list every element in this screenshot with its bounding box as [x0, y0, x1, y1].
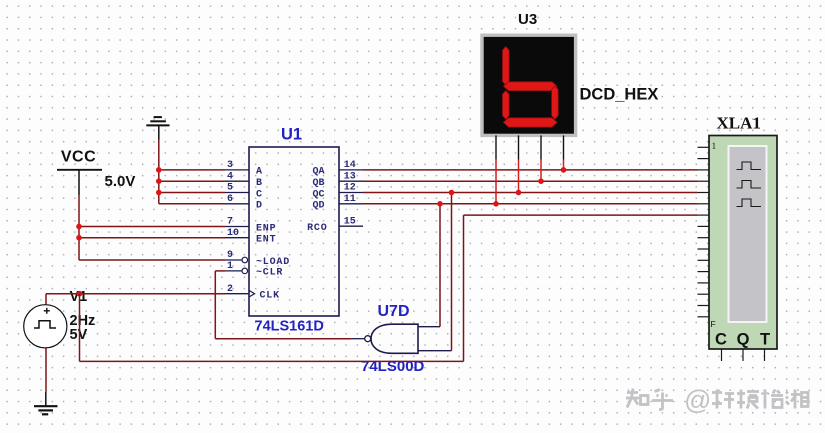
pin 3 (A) of U1	[225, 160, 263, 178]
svg-text:F: F	[711, 319, 716, 329]
NAND gate U7D 74LS00D body	[371, 324, 418, 353]
wire V1 to ground	[45, 348, 47, 407]
junction VCC/ENT	[76, 235, 82, 241]
label 2Hz	[70, 313, 96, 329]
wire GND to C (pin 5)	[159, 192, 225, 194]
junction GND/B	[156, 178, 162, 184]
svg-text:U3: U3	[518, 11, 537, 28]
XLA1 waveform glyph 1	[737, 162, 762, 170]
XLA1 bottom pin stub C	[721, 349, 723, 361]
wire GND rail vertical	[158, 140, 160, 204]
pin 4 (B) of U1	[225, 171, 263, 189]
svg-text:1: 1	[227, 261, 233, 272]
svg-text:9: 9	[227, 250, 233, 261]
ground GND2 (below V1)	[34, 406, 58, 414]
svg-text:@: @	[684, 385, 711, 415]
pin 15 (RCO) of U1	[307, 216, 363, 234]
XLA1 waveform glyph 2	[737, 181, 762, 189]
XLA1 label Q	[737, 331, 750, 349]
wire U3 pin 4 down to bus	[563, 135, 565, 170]
pin 14 (QA) of U1	[312, 160, 363, 178]
svg-text:ENP: ENP	[256, 223, 276, 234]
pin 10 (ENT) of U1	[225, 228, 276, 246]
wire GND to D (pin 6)	[159, 203, 225, 205]
svg-text:B: B	[256, 178, 263, 189]
wire U3 pin 2 down to bus	[518, 135, 520, 192]
voltage source V1 (2Hz 5V clock)	[24, 305, 67, 348]
pin 1 (~CLR) of U1, active-low bubble	[225, 261, 283, 279]
svg-text:6: 6	[227, 194, 233, 205]
junction clock branch	[77, 291, 83, 297]
power VCC	[57, 149, 102, 196]
XLA1 label C	[715, 331, 727, 349]
VCC value 5.0V	[105, 173, 136, 190]
svg-text:4: 4	[227, 171, 233, 182]
svg-text:74LS161D: 74LS161D	[255, 319, 324, 335]
label U7D	[378, 303, 410, 320]
svg-text:XLA1: XLA1	[717, 114, 761, 133]
pin 7 (ENP) of U1	[225, 217, 276, 235]
XLA1 input pin stubs	[698, 147, 710, 316]
NAND output bubble	[365, 336, 371, 342]
wire QD bus to XLA1	[363, 203, 698, 205]
pin 13 (QB) of U1	[312, 171, 363, 189]
segment C of U3	[552, 86, 559, 119]
pin 6 (D) of U1	[225, 194, 263, 212]
svg-text:D: D	[256, 201, 263, 212]
wire clock branch to XLA1 input T	[80, 215, 698, 361]
wire GND to A (pin 3)	[159, 169, 225, 171]
junction QC/NAND	[449, 190, 455, 196]
label 5V	[70, 327, 88, 343]
wire VCC to ENT (pin 10)	[79, 237, 225, 239]
svg-text:U1: U1	[281, 126, 302, 144]
svg-text:DCD_HEX: DCD_HEX	[580, 86, 659, 104]
wire QD bus to NAND top input	[439, 204, 441, 327]
pin 12 (QC) of U1	[312, 183, 363, 201]
wire GND to B (pin 4)	[159, 180, 225, 182]
svg-text:~LOAD: ~LOAD	[256, 257, 290, 268]
pin 5 (C) of U1	[225, 183, 263, 201]
svg-text:13: 13	[344, 171, 356, 182]
svg-text:CLK: CLK	[260, 290, 280, 301]
label U3	[518, 11, 537, 28]
XLA1 bottom pin stub T	[764, 349, 766, 361]
XLA1 corner label 1	[712, 142, 717, 152]
svg-text:~CLR: ~CLR	[256, 268, 283, 279]
svg-text:VCC: VCC	[61, 149, 96, 166]
svg-text:12: 12	[344, 183, 356, 194]
junction VCC/ENP	[76, 224, 82, 230]
junction U3 pin 4 on bus	[561, 167, 567, 173]
svg-text:5: 5	[227, 183, 233, 194]
XLA1 label T	[760, 331, 770, 349]
wire V1 to CLK (pin 2)	[46, 294, 225, 305]
svg-text:14: 14	[344, 160, 356, 171]
logic analyzer XLA1 body	[709, 136, 777, 350]
svg-text:C: C	[715, 331, 727, 349]
segment G of U3	[503, 82, 557, 91]
label U1	[281, 126, 302, 144]
XLA1 corner label F	[711, 319, 716, 329]
wire QC bus to XLA1	[363, 192, 698, 194]
pin 9 (~LOAD) of U1, active-low bubble	[225, 250, 290, 268]
svg-text:QD: QD	[312, 201, 324, 212]
junction GND/A	[156, 167, 162, 173]
junction U3 pin 2 on bus	[516, 190, 522, 196]
svg-text:T: T	[760, 331, 770, 349]
watermark 知乎 @轩辕怡湘 (drawn strokes)	[626, 385, 808, 415]
label DCD_HEX	[580, 86, 659, 104]
IC U1 74LS161D body	[249, 147, 339, 316]
pin 11 (QD) of U1	[312, 194, 363, 212]
XLA1 waveform glyph 3	[737, 199, 762, 207]
svg-text:A: A	[256, 167, 263, 178]
svg-text:2: 2	[227, 284, 233, 295]
svg-text:RCO: RCO	[307, 223, 327, 234]
wire VCC to ENP (pin 7)	[79, 226, 225, 228]
wire QC bus to NAND bottom input	[451, 193, 453, 351]
segment F of U3	[503, 47, 510, 86]
svg-text:10: 10	[227, 228, 239, 239]
svg-text:ENT: ENT	[256, 235, 276, 246]
ground GND1 (inverted, above wire bus)	[146, 117, 169, 139]
svg-text:5.0V: 5.0V	[105, 173, 136, 190]
NAND input stub bottom	[418, 350, 452, 352]
label 74LS161D	[255, 319, 324, 335]
label 74LS00D	[361, 358, 425, 375]
svg-text:1: 1	[712, 142, 717, 152]
segment E of U3	[503, 91, 510, 120]
svg-text:3: 3	[227, 160, 233, 171]
wire VCC to ~LOAD (pin 9)	[79, 259, 225, 261]
wire QB bus to XLA1	[363, 180, 698, 182]
pin 2 (CLK) of U1, clock edge triangle	[225, 284, 280, 302]
label XLA1	[717, 114, 761, 133]
wire U3 pin 3 down to bus	[540, 135, 542, 181]
svg-text:QA: QA	[312, 167, 324, 178]
svg-text:7: 7	[227, 217, 233, 228]
wire NAND output to ~CLR	[215, 271, 351, 339]
svg-text:15: 15	[344, 216, 356, 227]
svg-text:74LS00D: 74LS00D	[361, 358, 425, 375]
svg-text:5V: 5V	[70, 327, 88, 343]
wire QA bus to XLA1	[363, 169, 698, 171]
junction U3 pin 1 on bus	[493, 201, 499, 207]
wire U3 pin 1 down to bus	[495, 135, 497, 203]
svg-text:U7D: U7D	[378, 303, 410, 320]
wire VCC rail vertical	[78, 195, 80, 260]
segment D of U3	[503, 118, 557, 127]
svg-text:C: C	[256, 189, 263, 200]
label V1	[70, 289, 88, 305]
junction QD/NAND	[437, 201, 443, 207]
svg-text:Q: Q	[737, 331, 750, 349]
junction U3 pin 3 on bus	[538, 178, 544, 184]
svg-text:QB: QB	[312, 178, 324, 189]
svg-text:QC: QC	[312, 189, 324, 200]
NAND output stub	[352, 338, 365, 340]
XLA1 bottom pin stub Q	[742, 349, 744, 361]
display U3 DCD_HEX body	[482, 35, 576, 135]
NAND input stub top	[418, 326, 440, 328]
svg-text:11: 11	[344, 194, 356, 205]
junction GND/C	[156, 190, 162, 196]
